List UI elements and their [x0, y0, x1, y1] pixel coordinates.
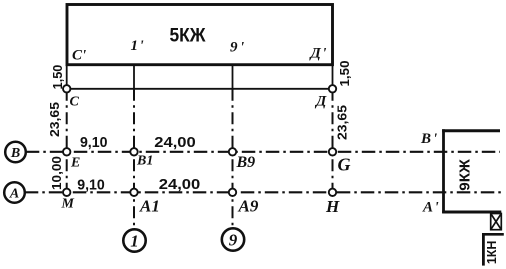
svg-text:С: С [70, 95, 80, 110]
svg-text:G: G [338, 155, 351, 175]
svg-text:1КН: 1КН [484, 241, 499, 265]
svg-text:Д: Д [314, 94, 327, 110]
svg-text:23,65: 23,65 [334, 105, 349, 140]
svg-text:5КЖ: 5КЖ [170, 26, 207, 47]
svg-text:9КЖ: 9КЖ [456, 159, 473, 191]
svg-text:А9: А9 [238, 197, 259, 216]
svg-text:9': 9' [230, 40, 244, 56]
svg-text:Е: Е [70, 156, 80, 171]
svg-text:1,50: 1,50 [337, 61, 352, 87]
svg-text:В': В' [420, 131, 437, 147]
svg-text:В1: В1 [136, 154, 153, 169]
svg-text:1: 1 [130, 232, 139, 251]
svg-text:10,00: 10,00 [49, 156, 64, 190]
svg-text:Н: Н [325, 197, 340, 216]
svg-text:В9: В9 [236, 154, 256, 171]
svg-text:С': С' [72, 48, 86, 64]
svg-text:1': 1' [131, 38, 144, 54]
svg-text:9,10: 9,10 [77, 177, 105, 194]
svg-text:А1: А1 [139, 197, 160, 216]
svg-text:А: А [9, 187, 19, 202]
svg-text:А': А' [422, 200, 439, 216]
svg-text:1,50: 1,50 [50, 65, 65, 90]
svg-text:Д': Д' [309, 46, 327, 62]
svg-text:9,10: 9,10 [80, 134, 108, 151]
svg-text:М: М [61, 197, 75, 212]
svg-text:9: 9 [229, 231, 238, 250]
svg-text:24,00: 24,00 [159, 176, 201, 193]
svg-text:23,65: 23,65 [47, 102, 62, 137]
svg-text:24,00: 24,00 [154, 134, 196, 151]
svg-text:В: В [10, 146, 20, 161]
